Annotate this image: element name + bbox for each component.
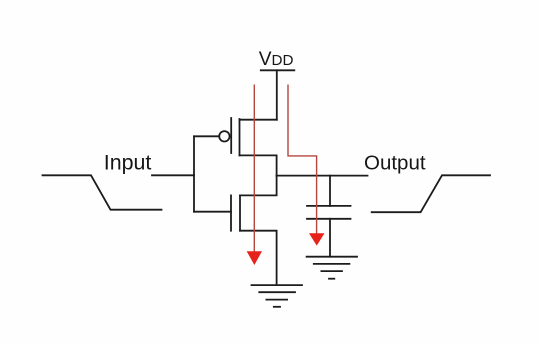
wire NMOS gate lead	[194, 211, 231, 213]
arrow red current path 2 head	[309, 233, 325, 245]
wire input lead	[152, 174, 194, 176]
wire capacitor top lead	[329, 176, 331, 206]
power VDD rail bar	[261, 69, 295, 71]
output waveform (rising edge)	[372, 175, 490, 212]
capacitor C1 bottom plate	[307, 218, 351, 220]
transistor Q2 NMOS drain lead	[240, 176, 277, 196]
transistor Q2 NMOS gate bar	[230, 195, 232, 230]
transistor Q2 NMOS channel bar	[239, 195, 241, 230]
transistor Q1 PMOS channel bar	[239, 119, 241, 155]
transistor Q1 PMOS drain lead	[240, 155, 277, 175]
wire VDD drop	[276, 70, 278, 119]
svg-text:Input: Input	[104, 150, 152, 174]
ground capacitor	[307, 257, 357, 279]
wire red current path 1	[253, 85, 255, 252]
svg-text:Output: Output	[364, 151, 426, 174]
transistor Q1 PMOS source lead	[240, 119, 277, 121]
arrow red current path 1 head	[247, 251, 262, 265]
wire output	[277, 175, 368, 177]
wire PMOS gate lead	[194, 135, 219, 137]
input waveform (falling edge)	[43, 175, 162, 209]
capacitor C1 top plate	[307, 205, 351, 207]
wire capacitor bottom lead	[329, 219, 331, 257]
ground main	[252, 285, 303, 307]
transistor Q1 PMOS inversion bubble	[219, 131, 229, 141]
svg-text:VDD: VDD	[259, 49, 294, 70]
wire gate vertical bus	[193, 136, 195, 211]
transistor Q1 PMOS gate bar	[230, 118, 232, 153]
wire red current path 2	[288, 85, 317, 234]
transistor Q2 NMOS source lead	[240, 231, 277, 285]
